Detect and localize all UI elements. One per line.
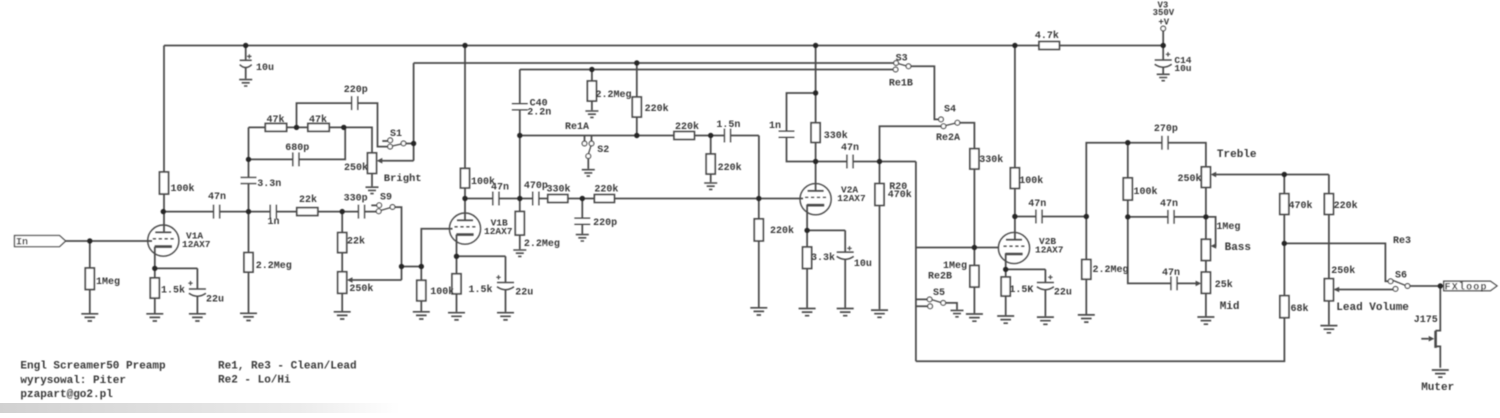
svg-text:Mid: Mid [1220, 301, 1240, 313]
svg-text:pzapart@go2.pl: pzapart@go2.pl [20, 389, 113, 401]
svg-text:220k: 220k [770, 225, 794, 237]
svg-text:Bright: Bright [384, 173, 422, 185]
svg-text:S9: S9 [380, 193, 392, 204]
svg-text:330p: 330p [344, 194, 368, 205]
svg-text:220k: 220k [1334, 200, 1358, 212]
svg-text:250k: 250k [344, 162, 368, 174]
svg-text:10u: 10u [1174, 63, 1191, 74]
svg-text:250k: 250k [1178, 173, 1202, 185]
svg-text:1Meg: 1Meg [1216, 222, 1240, 233]
svg-text:250k: 250k [349, 283, 373, 295]
svg-text:47n: 47n [841, 143, 859, 154]
svg-text:Treble: Treble [1217, 149, 1257, 161]
svg-text:270p: 270p [1154, 124, 1178, 135]
svg-text:Re1, Re3 - Clean/Lead: Re1, Re3 - Clean/Lead [218, 361, 357, 373]
svg-text:220k: 220k [718, 162, 742, 174]
svg-text:100k: 100k [171, 183, 195, 195]
svg-text:10u: 10u [854, 259, 872, 270]
svg-text:1Meg: 1Meg [943, 261, 967, 272]
svg-text:47k: 47k [309, 114, 327, 126]
svg-text:330k: 330k [824, 130, 848, 142]
svg-text:3.3n: 3.3n [257, 179, 281, 190]
svg-text:1n: 1n [769, 121, 781, 132]
svg-text:wyrysowal: Piter: wyrysowal: Piter [20, 375, 126, 387]
svg-text:1.5k: 1.5k [469, 284, 493, 296]
svg-text:220p: 220p [344, 85, 368, 96]
svg-text:S4: S4 [944, 105, 956, 116]
svg-text:12AX7: 12AX7 [182, 239, 211, 250]
svg-text:J175: J175 [1414, 315, 1438, 326]
svg-text:12AX7: 12AX7 [1035, 244, 1064, 255]
svg-text:Muter: Muter [1421, 382, 1454, 394]
svg-text:47n: 47n [1028, 199, 1046, 210]
svg-text:2.2Meg: 2.2Meg [256, 261, 292, 272]
svg-text:100k: 100k [430, 286, 454, 298]
svg-text:22u: 22u [206, 295, 224, 306]
svg-text:22k: 22k [347, 236, 365, 248]
svg-text:220k: 220k [675, 121, 699, 133]
svg-text:Re1B: Re1B [889, 79, 913, 90]
svg-text:Lead Volume: Lead Volume [1336, 302, 1409, 314]
svg-text:1n: 1n [268, 217, 280, 228]
svg-text:220k: 220k [594, 184, 618, 196]
svg-text:S5: S5 [933, 288, 945, 299]
svg-text:470k: 470k [888, 189, 912, 201]
svg-text:S3: S3 [896, 54, 908, 65]
svg-text:22u: 22u [515, 288, 533, 299]
svg-text:25k: 25k [1215, 279, 1233, 291]
svg-text:220p: 220p [593, 218, 617, 229]
svg-text:47n: 47n [1160, 199, 1178, 210]
svg-text:Engl Screamer50 Preamp: Engl Screamer50 Preamp [20, 361, 166, 373]
svg-text:2.2Meg: 2.2Meg [1093, 265, 1129, 276]
svg-text:330k: 330k [979, 154, 1003, 166]
svg-text:680p: 680p [285, 143, 309, 154]
svg-text:47k: 47k [267, 114, 285, 126]
svg-text:350V: 350V [1153, 8, 1175, 18]
svg-text:S1: S1 [390, 129, 402, 140]
svg-text:100k: 100k [1019, 175, 1043, 187]
svg-text:220k: 220k [645, 103, 669, 115]
svg-text:Bass: Bass [1225, 242, 1251, 254]
svg-text:12AX7: 12AX7 [484, 226, 513, 237]
svg-text:330k: 330k [547, 184, 571, 196]
svg-text:Re2B: Re2B [928, 272, 952, 283]
svg-text:4.7k: 4.7k [1035, 30, 1059, 42]
svg-text:470p: 470p [524, 181, 548, 192]
svg-text:47n: 47n [491, 183, 509, 194]
svg-text:22u: 22u [1054, 288, 1072, 299]
svg-text:+V: +V [1158, 18, 1169, 28]
svg-text:47n: 47n [1162, 268, 1180, 279]
svg-text:S2: S2 [597, 145, 609, 156]
svg-text:1Meg: 1Meg [96, 277, 120, 288]
svg-text:Re1A: Re1A [565, 122, 589, 133]
svg-text:2.2Meg: 2.2Meg [596, 90, 632, 101]
svg-text:250k: 250k [1331, 265, 1355, 277]
svg-text:100k: 100k [1134, 186, 1158, 198]
svg-text:Re3: Re3 [1393, 236, 1411, 247]
svg-text:1.5K: 1.5K [1009, 285, 1033, 296]
svg-text:68k: 68k [1291, 303, 1309, 315]
svg-text:22k: 22k [299, 194, 317, 206]
svg-text:1.5n: 1.5n [716, 120, 740, 131]
svg-text:S6: S6 [1395, 271, 1407, 282]
svg-text:10u: 10u [256, 63, 274, 74]
svg-text:FXloop: FXloop [1445, 282, 1487, 294]
svg-text:470k: 470k [1289, 200, 1313, 212]
svg-text:1.5k: 1.5k [161, 285, 185, 297]
svg-text:47n: 47n [208, 192, 226, 203]
svg-text:12AX7: 12AX7 [837, 193, 866, 204]
svg-text:Re2A: Re2A [936, 133, 960, 144]
svg-text:2.2Meg: 2.2Meg [524, 239, 560, 250]
svg-text:In: In [16, 238, 28, 249]
svg-text:2.2n: 2.2n [527, 108, 551, 119]
svg-text:3.3k: 3.3k [811, 252, 835, 264]
svg-text:Re2 - Lo/Hi: Re2 - Lo/Hi [218, 375, 291, 387]
